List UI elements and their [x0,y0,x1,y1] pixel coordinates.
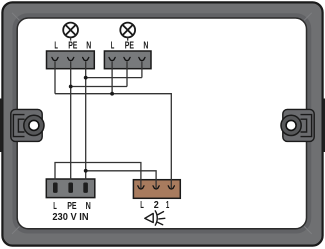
svg-text:230 V IN: 230 V IN [52,212,88,223]
corner seam top-left [12,13,20,20]
svg-text:L: L [111,40,115,51]
corner seam top-right [304,13,312,20]
X4 clamp 2 [153,186,159,189]
mounting lug left grommet [24,115,44,135]
X2 clamp N [139,57,145,60]
svg-text:L: L [140,200,144,211]
wire lamp2 L down [111,61,113,93]
wire N bus horizontal [86,77,142,79]
svg-text:PE: PE [68,40,77,51]
wire lamp1 PE down to input PE [70,61,72,179]
X2 clamp L [109,57,115,60]
X2 clamp PE [124,57,130,60]
junction dot lamp2 L / switched line [110,92,114,96]
X3 slot L [53,183,58,193]
svg-text:L: L [53,201,57,212]
X4 clamp L [138,186,144,189]
terminal block X4 (sensor/switch, brown) [133,180,180,199]
mounting lug right plate [283,109,314,141]
lamp E2 symbol [120,23,135,38]
mounting lug right grommet [281,115,301,135]
lamp E1 stub wire [70,37,72,40]
mounting lug bump right edge [322,99,325,153]
mounting lug right bracket [301,115,312,137]
wire lamp1 N down to input N [85,61,87,179]
X3 slot N [83,183,88,193]
wire switched L horizontal to sensor terminal 1 [55,94,171,189]
X1 clamp L [52,57,58,60]
frame inner shadow strip [15,16,309,232]
mounting lug left bracket [13,115,24,137]
svg-text:PE: PE [67,201,77,212]
svg-text:PE: PE [125,40,134,51]
junction dot lamp1 N / N bus [84,76,88,80]
lamp E1 symbol [63,23,78,38]
X4 clamp 1 [168,186,174,189]
wire PE bus horizontal [71,86,127,88]
X1 clamp PE [68,57,74,60]
sensor icon (detector with rays) [145,211,165,225]
wire lamp2 N down [141,61,143,77]
corner seam bottom-left [12,226,20,234]
wire input L to sensor L [55,163,141,189]
wire lamp2 PE down [126,61,128,86]
terminal block X3 (230V input) [46,179,95,198]
lamp E2 stub wire [127,37,129,40]
junction dot input N branch [84,169,88,173]
mounting lug bump left edge [0,99,3,153]
wire N branch to sensor terminal 2 [86,171,156,189]
X1 clamp N [83,57,89,60]
terminal block X2 (lamp 2) [104,51,151,69]
svg-text:1: 1 [166,200,170,211]
svg-text:N: N [143,40,148,51]
corner seam bottom-right [304,226,312,234]
svg-text:2: 2 [154,200,159,211]
svg-text:L: L [54,40,58,51]
svg-text:N: N [86,201,91,212]
wire lamp1 L down [54,61,56,93]
terminal block X1 (lamp 1) [47,51,95,69]
enclosure inner white area [17,18,306,229]
X3 slot PE [68,183,73,193]
svg-text:N: N [86,40,91,51]
mounting lug left hole [29,120,39,130]
mounting lug left plate [11,109,42,141]
mounting lug right hole [286,120,296,130]
junction dot lamp1 PE / PE bus [69,85,73,89]
